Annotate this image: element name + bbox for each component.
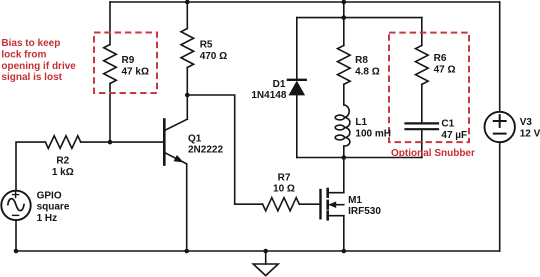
svg-text:R5: R5 [200, 40, 213, 51]
node ground tap [263, 249, 268, 254]
svg-text:D1: D1 [273, 79, 286, 90]
svg-text:opening if drive: opening if drive [1, 61, 76, 72]
svg-text:IRF530: IRF530 [348, 206, 381, 217]
capacitor C1 [406, 123, 439, 129]
wire V3 bottom to ground rail [499, 142, 501, 251]
diode D1 [288, 80, 306, 96]
wire network top to R6 [421, 18, 423, 46]
node R9-R2 junction [108, 140, 113, 145]
svg-text:Q1: Q1 [188, 134, 202, 145]
svg-text:L1: L1 [355, 117, 367, 128]
wire network top to R8 [343, 18, 345, 46]
voltage source V1 GPIO [1, 191, 30, 220]
wire collector junction to R7 [187, 95, 262, 204]
svg-text:C1: C1 [441, 118, 454, 129]
wire D1 anode down to node [296, 95, 298, 157]
wire R2 to Q1 base [81, 141, 164, 143]
transistor M1 [321, 189, 344, 219]
node GPIO ground corner [14, 249, 19, 254]
wire R9 bottom to base node [109, 84, 111, 143]
svg-text:R6: R6 [434, 53, 447, 64]
node rail R5 [185, 0, 190, 4]
svg-text:Optional Snubber: Optional Snubber [391, 148, 475, 159]
wire top supply rail [110, 1, 500, 3]
svg-text:470 Ω: 470 Ω [200, 51, 227, 62]
transistor Q1 [164, 119, 187, 164]
svg-text:4.8 Ω: 4.8 Ω [355, 67, 380, 78]
node source ground rail [342, 249, 347, 254]
resistor R6 [416, 45, 429, 84]
svg-text:lock from: lock from [1, 49, 46, 60]
svg-text:1 Hz: 1 Hz [37, 213, 58, 224]
svg-text:100 mH: 100 mH [355, 129, 391, 140]
wire bottom ground rail [16, 250, 500, 252]
node rail network top [342, 0, 347, 4]
wire top rail to V3 [499, 2, 501, 112]
wire rail corner down to R9 [109, 2, 111, 45]
note bias text [1, 38, 76, 83]
svg-text:R7: R7 [278, 172, 291, 183]
svg-text:signal is lost: signal is lost [1, 72, 62, 83]
wire Q1 emitter to ground rail [186, 164, 188, 251]
resistor R7 [263, 198, 300, 211]
svg-text:R8: R8 [355, 55, 368, 66]
wire to D1 cathode [296, 18, 298, 80]
wire R6 to C1 [421, 84, 423, 123]
wire L1 to load node [343, 146, 345, 157]
svg-text:2N2222: 2N2222 [188, 145, 223, 156]
resistor R2 [45, 136, 80, 149]
svg-text:R2: R2 [56, 156, 69, 167]
wire R7 to M1 gate [299, 203, 320, 205]
wire network bottom rail [297, 157, 422, 159]
wire Q1 collector up to R5 [186, 68, 188, 120]
svg-text:V3: V3 [520, 117, 533, 128]
annotation box bias [94, 33, 157, 94]
annotation box snubber [389, 33, 469, 143]
wire M1 drain up to load node [343, 158, 345, 193]
svg-text:R9: R9 [122, 55, 135, 66]
resistor R5 [181, 29, 194, 68]
node network top junction [342, 15, 347, 20]
wire R5 top to rail [186, 2, 188, 29]
wire M1 source to ground rail [343, 216, 345, 251]
svg-text:47 Ω: 47 Ω [434, 65, 456, 76]
resistor R9 [104, 45, 117, 84]
wire network top rail [297, 17, 422, 19]
svg-text:Bias to keep: Bias to keep [1, 38, 60, 49]
node collector R7 junction [185, 93, 190, 98]
svg-text:47 kΩ: 47 kΩ [122, 67, 149, 78]
svg-text:square: square [37, 202, 70, 213]
node load junction [342, 155, 347, 160]
ground [253, 251, 278, 276]
voltage source V3 [485, 112, 515, 142]
wire GPIO bottom [15, 220, 17, 251]
wire R8 to L1 [343, 84, 345, 105]
svg-text:12 V: 12 V [520, 129, 540, 140]
wire rail drop to network [343, 2, 345, 18]
svg-text:GPIO: GPIO [37, 190, 62, 201]
svg-text:10 Ω: 10 Ω [273, 184, 295, 195]
svg-text:1 kΩ: 1 kΩ [52, 167, 74, 178]
wire C1 to node [421, 129, 423, 157]
inductor L1 [335, 105, 350, 146]
svg-text:1N4148: 1N4148 [251, 90, 286, 101]
resistor R8 [338, 45, 351, 84]
svg-text:M1: M1 [348, 195, 362, 206]
wire GPIO top to R2 [16, 142, 45, 191]
node emitter ground rail [184, 249, 189, 254]
svg-text:47 µF: 47 µF [441, 130, 467, 141]
